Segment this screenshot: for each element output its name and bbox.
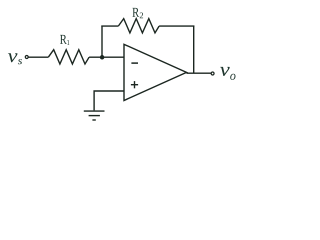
label R1 xyxy=(60,35,69,45)
wire node up xyxy=(101,26,103,58)
label v_o xyxy=(220,67,235,80)
wire R1 to op-amp inverting input xyxy=(89,56,124,58)
resistor R1 xyxy=(48,50,89,64)
wire op-amp output to terminal xyxy=(187,72,212,74)
wire top left to R2 xyxy=(101,25,118,27)
resistor R2 xyxy=(118,19,159,33)
label v_s xyxy=(8,53,22,64)
input terminal circle xyxy=(25,56,28,59)
wire input to R1 xyxy=(28,56,48,58)
ground xyxy=(84,111,105,120)
node A junction dot xyxy=(100,55,105,60)
label R2 xyxy=(132,8,143,18)
wire R2 to right corner xyxy=(159,25,194,27)
op-amp U1 xyxy=(124,44,187,100)
plus sign (non-inverting input) xyxy=(131,81,138,88)
wire right corner down to output xyxy=(193,26,195,74)
output terminal circle xyxy=(211,72,214,75)
wire non-inverting input to ground xyxy=(94,91,124,110)
minus sign (inverting input) xyxy=(131,62,138,64)
